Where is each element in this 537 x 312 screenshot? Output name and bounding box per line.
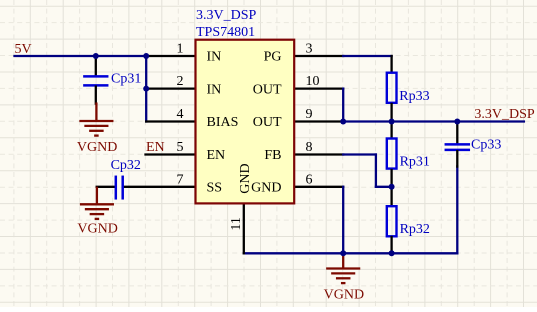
svg-text:FB: FB [264, 148, 281, 163]
wire left vertical bus [145, 56, 147, 122]
svg-text:4: 4 [177, 107, 184, 122]
wire EN to pin5 [146, 153, 196, 155]
svg-text:VGND: VGND [324, 288, 364, 303]
wire 5V horizontal [15, 55, 147, 57]
junction IN pin2 [143, 86, 149, 92]
pin 11 stub [243, 203, 245, 253]
svg-text:Cp31: Cp31 [111, 71, 141, 86]
svg-text:5V: 5V [15, 42, 32, 57]
junction 3.3V at Cp33 [454, 119, 460, 125]
resistor Rp31 [390, 122, 392, 138]
wire pin6 GND down [294, 186, 343, 188]
junction 3.3V at pin10 drop [340, 119, 346, 125]
svg-text:OUT: OUT [253, 82, 282, 97]
wire pin2 segment [146, 87, 195, 89]
wire pin8 FB [294, 153, 343, 155]
svg-text:PG: PG [264, 50, 282, 65]
svg-text:3.3V_DSP: 3.3V_DSP [474, 107, 535, 122]
junction 5V at IN bus [143, 53, 149, 59]
junction FB divider [389, 184, 395, 190]
capacitor Cp33 [456, 122, 458, 144]
svg-text:5: 5 [177, 140, 184, 155]
wire SS pin7 [124, 186, 195, 188]
wire pin3 to Rp33 [294, 55, 343, 57]
svg-text:GND: GND [251, 181, 281, 196]
svg-text:2: 2 [177, 74, 184, 89]
svg-text:VGND: VGND [77, 140, 117, 155]
svg-text:BIAS: BIAS [207, 115, 239, 130]
svg-text:Rp32: Rp32 [400, 222, 430, 237]
resistor Rp33 [390, 56, 392, 72]
svg-text:GND: GND [238, 163, 253, 193]
resistor Rp32 [390, 187, 392, 205]
svg-text:3: 3 [306, 42, 313, 57]
ground VGND left of Cp32 [96, 188, 98, 204]
svg-text:10: 10 [306, 74, 320, 89]
svg-text:8: 8 [306, 140, 313, 155]
svg-text:7: 7 [177, 172, 184, 187]
svg-text:IN: IN [207, 82, 222, 97]
junction 5V at Cp31 [93, 53, 99, 59]
svg-text:Cp32: Cp32 [111, 158, 141, 173]
svg-text:3.3V_DSP: 3.3V_DSP [196, 8, 257, 23]
wire pin4 segment [146, 120, 195, 122]
svg-text:11: 11 [229, 217, 244, 230]
wire pin9 output net [294, 120, 343, 122]
ground VGND under Cp31 [95, 104, 97, 121]
svg-text:6: 6 [306, 172, 313, 187]
capacitor Cp31 [95, 56, 97, 75]
wire pin10 down to out net [294, 87, 343, 89]
wire ground rail [244, 252, 457, 254]
svg-text:TPS74801: TPS74801 [196, 25, 255, 40]
wire Cp33 branch vertical [456, 166, 458, 253]
junction GND rail at Rp32 [389, 250, 395, 256]
op-amp regulator U TPS74801 body [196, 40, 295, 204]
svg-text:Rp33: Rp33 [399, 89, 429, 104]
svg-text:SS: SS [207, 181, 223, 196]
wire pin1 segment [146, 55, 195, 57]
svg-text:Rp31: Rp31 [400, 155, 430, 170]
capacitor Cp32 [97, 186, 115, 188]
svg-text:OUT: OUT [253, 115, 282, 130]
svg-text:1: 1 [177, 42, 184, 57]
svg-text:Cp33: Cp33 [471, 138, 501, 153]
svg-text:EN: EN [146, 140, 165, 155]
junction 3.3V at Rp33 [389, 119, 395, 125]
svg-text:9: 9 [306, 107, 313, 122]
svg-text:VGND: VGND [77, 222, 117, 237]
svg-text:EN: EN [207, 148, 226, 163]
junction GND rail at VGND [340, 250, 346, 256]
svg-text:IN: IN [207, 50, 222, 65]
ground VGND bottom center [342, 253, 344, 268]
